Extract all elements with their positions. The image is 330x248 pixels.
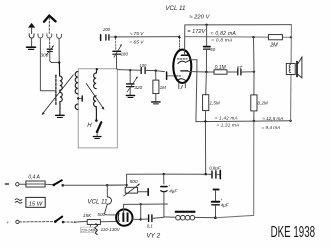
svg-text:= 65 V: = 65 V: [129, 40, 144, 46]
svg-text:+: +: [168, 184, 170, 188]
socket 3: [47, 34, 52, 38]
series capacitor 200 with terminal bar: [101, 35, 116, 41]
pentode anode: [181, 54, 187, 56]
wire from socket1 to earth: [31, 38, 33, 46]
resistor 1M (grid leak): [153, 71, 159, 102]
svg-text:VY 2: VY 2: [146, 233, 160, 240]
cathode wire to measuring line: [191, 60, 197, 122]
svg-text:= 0,8 mA: = 0,8 mA: [211, 38, 232, 44]
heater chain of VCL11: [106, 185, 108, 197]
svg-text:300: 300: [41, 53, 49, 58]
electrolytic 4uF (left): [161, 174, 167, 217]
svg-text:DKE 1938: DKE 1938: [271, 223, 315, 241]
ground inside box: [93, 137, 101, 139]
rectifier tube VY2: [116, 209, 132, 225]
socket 1: [29, 34, 34, 38]
L2 tap junction: [77, 97, 79, 99]
resistor 1,5M chain: [203, 72, 209, 174]
pentode grid dashes: [177, 58, 187, 60]
svg-text:VCL 11: VCL 11: [165, 5, 185, 12]
mains switch lower: [54, 220, 57, 223]
pentode cathode: [178, 60, 191, 64]
heater pins: [178, 83, 180, 88]
svg-text:4µF: 4µF: [169, 188, 178, 193]
svg-text:180: 180: [121, 51, 129, 56]
antenna A1 (small aerial, left): [28, 23, 35, 34]
antenna coil L1: [59, 63, 62, 115]
capacitor 50: [204, 25, 210, 72]
triode anode: [181, 70, 188, 72]
speaker branch: [290, 25, 293, 121]
ground below 320: [126, 96, 134, 98]
grid wire to pentode g1: [116, 36, 180, 38]
trimmer capacitor 180: [113, 38, 122, 69]
triode cathode: [177, 79, 186, 81]
iron core (dashed) of L1: [55, 75, 57, 104]
svg-text:15K: 15K: [83, 213, 92, 219]
svg-text:0,1M: 0,1M: [215, 65, 227, 71]
svg-text:1M: 1M: [160, 85, 167, 90]
svg-text:15 W: 15 W: [29, 201, 43, 207]
grid line: box to 100pF to grid bar: [117, 69, 140, 72]
feedback coil L3: [96, 68, 98, 70]
tuning coil L2: [75, 72, 78, 110]
wire socket4 down: [58, 39, 60, 63]
mains switch upper: [53, 184, 56, 187]
power line minus row: [5, 183, 8, 185]
filter choke: [164, 216, 175, 218]
resistor 2M: [268, 35, 282, 40]
svg-text:320: 320: [134, 85, 142, 91]
svg-text:200: 200: [102, 27, 111, 32]
svg-text:2M: 2M: [269, 43, 278, 49]
resistor 0,2M chain: [251, 37, 257, 121]
cathode measuring line (mA): [196, 120, 291, 123]
triode anode line with 0,1M and 6T: [188, 71, 214, 74]
socket 4: [57, 34, 62, 38]
loudspeaker: [286, 57, 302, 78]
dashed wire socket3 to trimmer: [49, 38, 51, 48]
fuse 0,4A: [26, 181, 45, 187]
variable-core arrow through L1: [42, 75, 74, 115]
triode grid dashes: [176, 75, 181, 77]
B+ from VY2 cathode: [124, 204, 168, 212]
svg-text:≈ 1,42 mA: ≈ 1,42 mA: [215, 116, 238, 121]
variable capacitor 320: [127, 70, 138, 95]
svg-text:4µF: 4µF: [221, 203, 230, 208]
ground below L1: [56, 115, 64, 117]
svg-text:≈ 0,82 mA: ≈ 0,82 mA: [211, 31, 237, 37]
AC symbol: [15, 199, 22, 203]
VY2 output wire: [132, 218, 141, 220]
svg-text:≈ 75 V: ≈ 75 V: [130, 31, 144, 36]
voltage selector with resistors 15K / 500: [87, 220, 100, 225]
svg-text:500: 500: [130, 179, 138, 185]
earth terminal E1: [27, 47, 36, 49]
electrolytic 4uF (middle, floating plate): [212, 189, 220, 218]
wire trimmer to node: [50, 52, 59, 63]
trimmer capacitor 300: [46, 46, 53, 55]
svg-text:≈ 220 V: ≈ 220 V: [189, 14, 210, 20]
svg-text:50: 50: [210, 47, 215, 52]
antenna A2 (main aerial arrow): [44, 16, 56, 22]
15W box: [26, 197, 45, 207]
capacitor 0,8uF with terminal bar: [212, 170, 220, 178]
B+ rail (220V): [185, 24, 292, 26]
socket 2: [38, 34, 43, 38]
svg-text:= 172V: = 172V: [187, 29, 206, 35]
variable coupling arrow through L3: [86, 84, 104, 110]
svg-text:+: +: [221, 198, 223, 202]
resistor 0,1M: [214, 70, 227, 74]
tap stub and terminal bar: [78, 97, 81, 99]
grid terminal bar at triode grid: [166, 72, 168, 79]
svg-text:VCL 11: VCL 11: [87, 199, 107, 206]
capacitor 6T: [238, 69, 241, 75]
screen line y=37 with 2M: [186, 36, 269, 39]
link down to hum pot: [126, 174, 128, 187]
svg-text:100: 100: [139, 63, 147, 68]
ground below 1M: [152, 102, 161, 104]
svg-text:110-130V: 110-130V: [101, 227, 121, 232]
svg-text:220-240V: 220-240V: [80, 229, 97, 233]
svg-text:0,4 A: 0,4 A: [28, 174, 40, 180]
feedback switch (label H): [95, 119, 98, 122]
coil-unit box: [78, 69, 117, 148]
selector zigzag tap: [95, 224, 98, 235]
node junction: [58, 61, 60, 63]
svg-text:0,8µF: 0,8µF: [209, 165, 221, 170]
hum potentiometer 500: [124, 184, 149, 197]
svg-text:1,5M: 1,5M: [210, 100, 220, 105]
capacitor 0,1: [149, 215, 152, 222]
svg-text:= 9,4 mA: = 9,4 mA: [261, 125, 280, 130]
B+ node wire (0,8uF row): [127, 173, 212, 175]
svg-text:0,1: 0,1: [147, 223, 154, 228]
dashed grid entry with up arrow into tube: [178, 38, 180, 51]
svg-text:H: H: [87, 123, 92, 129]
capacitor 100: [141, 68, 145, 74]
wire socket2 down to coil tap: [40, 38, 55, 90]
svg-text:≈ 12,5 mA: ≈ 12,5 mA: [262, 116, 283, 121]
dashed aerial lead-in: [48, 18, 50, 34]
svg-text:+: +: [6, 220, 9, 225]
svg-text:= 1,31 mA: = 1,31 mA: [216, 123, 239, 128]
svg-text:0,2M: 0,2M: [258, 101, 268, 106]
